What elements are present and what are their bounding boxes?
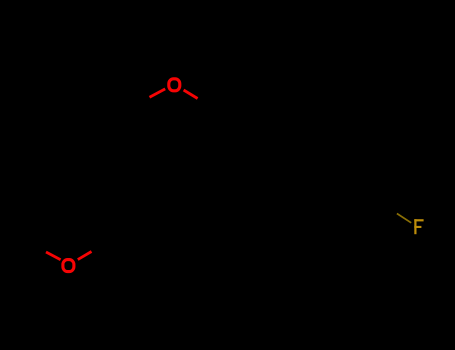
bond C(ring3)-F gold half	[397, 214, 411, 223]
benzene ring 3 (right, black-on-black invisible)	[318, 187, 382, 260]
bond O2-C(ring2) red half	[78, 252, 92, 260]
atom label O2 (bottom methoxy oxygen)	[63, 260, 74, 272]
methyl stub of bottom methoxy (black-on-black invisible)	[31, 243, 46, 252]
bond CH3-O2 red half	[46, 252, 61, 260]
bond O1-CH3 red half	[184, 90, 198, 99]
bond C(ring1)-O1 red half	[150, 89, 166, 97]
benzene ring 1 (top-left, black-on-black invisible)	[103, 105, 167, 178]
atom label F1 (fluorine)	[414, 219, 423, 234]
atom label O1 (top methoxy oxygen)	[169, 79, 180, 91]
connecting vinyl chain (black-on-black invisible)	[167, 160, 318, 205]
benzene ring 2 (lower-left, black-on-black invisible)	[105, 188, 169, 261]
methyl stub of top methoxy (black-on-black invisible)	[198, 98, 213, 107]
